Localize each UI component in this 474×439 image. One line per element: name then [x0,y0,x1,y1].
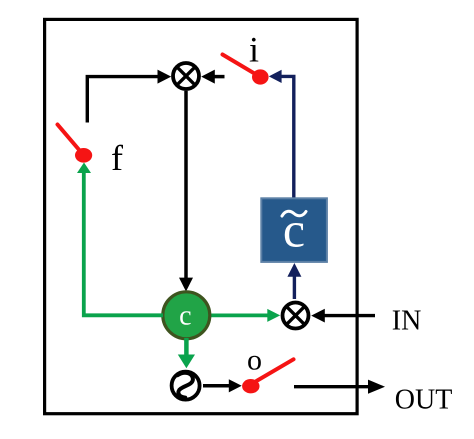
svg-text:c: c [179,301,191,332]
wire: OUT arrow [294,380,385,394]
svg-text:o: o [247,343,262,376]
wire: i switch into M1 [201,70,224,84]
multiplier node M2 [283,303,309,329]
wire: c-tilde block up and left into i switch (navy) [269,70,294,198]
wire: cell node c down to output activation (green) [178,338,195,368]
cell boundary box [45,19,358,413]
wire: f switch up to multiplier M1 [87,70,171,123]
switch i (red lever and pivot) [223,55,269,85]
wire: IN into M2 [311,309,375,323]
switch o (red lever and pivot) [242,359,293,393]
svg-text:IN: IN [392,305,422,336]
svg-text:i: i [249,29,259,69]
wire: multiplier M2 up into c-tilde block (navy) [287,263,301,299]
svg-text:c: c [283,202,305,258]
wire: activation into o switch [203,379,242,392]
output activation node (sigmoid) [172,372,200,400]
wire: M1 down to cell node c [179,91,193,292]
block c-tilde (candidate state) [261,198,327,262]
svg-text:OUT: OUT [395,384,453,415]
multiplier node M1 [173,63,199,89]
wire: cell node c right into M2 (green) [210,309,280,322]
cell state node c [163,292,210,339]
wire: cell node c left and up into f switch (green) [77,163,163,316]
svg-text:f: f [111,138,123,178]
switch f (red lever and pivot) [58,125,93,163]
